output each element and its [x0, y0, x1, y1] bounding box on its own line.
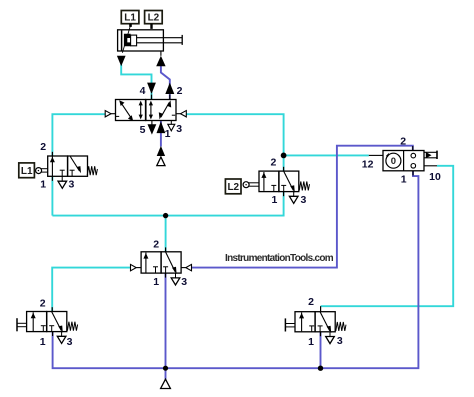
- L1 roller: [36, 168, 48, 174]
- svg-text:2: 2: [153, 239, 159, 251]
- L2 valve blocked port 1 T: [281, 185, 286, 191]
- middle valve diagonal path 2-3: [166, 252, 177, 274]
- svg-text:L2: L2: [148, 13, 160, 24]
- L2 valve return spring: [299, 181, 309, 190]
- flow arrow out of 5/2 port 5 (down): [148, 121, 157, 135]
- wire blue: middle valve right pilot to counter port 2: [191, 146, 412, 268]
- port stub middle valve port 1: [165, 273, 167, 277]
- svg-text:12: 12: [362, 159, 374, 171]
- middle valve left box path arrow up: [143, 253, 148, 273]
- leader line from flag L1 to cylinder piston: [122, 25, 130, 53]
- L2 valve left box path with arrow up: [261, 172, 266, 191]
- 5/2 valve left box crossed path: [119, 100, 133, 121]
- wire cyan: junction to counter port 12: [284, 154, 369, 156]
- middle valve port label 2: [153, 239, 159, 251]
- counter manual reset button: [424, 151, 437, 159]
- cylinder piston rod: [137, 35, 183, 45]
- 5/2 valve left box blocked port T: [116, 115, 119, 117]
- flow arrow supply under 5/2 valve (up): [157, 146, 165, 156]
- L2 port label 1: [271, 194, 277, 206]
- L1 valve exhaust triangle port 3: [58, 176, 67, 188]
- port stub middle valve port 2: [165, 247, 167, 251]
- L1 port label 3: [68, 178, 74, 190]
- svg-text:L1: L1: [124, 13, 136, 24]
- bottom-right valve port label 1: [308, 336, 314, 348]
- port stub L2 valve port 1: [283, 192, 285, 196]
- flow arrow out of 5/2 port 2 (up): [165, 83, 174, 94]
- svg-text:2: 2: [177, 85, 183, 97]
- counter port 2 stub: [412, 146, 414, 151]
- port stub bottom-right valve port 1: [320, 332, 322, 336]
- counter port label 10: [429, 171, 441, 183]
- middle valve port label 1: [153, 276, 159, 288]
- 5/2 valve left pilot: [105, 111, 115, 117]
- L1 port label 2: [40, 141, 46, 153]
- bottom-left valve return spring: [67, 322, 77, 331]
- L1 valve flow path 1-2 (open, arrow up): [50, 156, 55, 176]
- wire blue: stub from bus junction down to supply triangle: [165, 368, 167, 380]
- svg-text:L1: L1: [21, 166, 33, 177]
- wire cyan: L1 valve port 1 down to bus: [51, 176, 53, 215]
- bottom-right valve port label 3: [337, 335, 343, 347]
- bottom-left valve diagonal path 2-3: [52, 312, 63, 333]
- 5/2 valve right box diagonal path 1-2: [159, 100, 171, 119]
- middle valve exhaust triangle port 3: [171, 273, 180, 285]
- wire blue: 5/2 valve port 1 down to supply: [160, 121, 162, 147]
- middle valve left box blocked T: [153, 267, 158, 273]
- flow arrow into 5/2 port 1 (up): [157, 121, 166, 133]
- L1 flag box: [19, 163, 35, 178]
- bottom-left valve left box path arrow up: [31, 312, 36, 331]
- L1 valve body: [48, 156, 88, 176]
- wire cyan: counter port 10 to bottom-right valve port 2: [321, 166, 454, 306]
- port label 3 (5/2 valve): [176, 123, 182, 135]
- port stub bottom-left valve port 1: [52, 332, 54, 336]
- L2 valve diagonal path 2-3: [284, 171, 295, 192]
- svg-text:InstrumentationTools.com: InstrumentationTools.com: [225, 253, 334, 264]
- port stub L2 valve port 2: [283, 167, 285, 171]
- svg-text:1: 1: [153, 276, 159, 288]
- svg-text:3: 3: [337, 335, 343, 347]
- bottom-left valve manual plunger: [17, 318, 27, 331]
- port label 5: [140, 124, 146, 136]
- wire blue: cylinder right port to 5/2 valve port 2: [161, 65, 170, 100]
- bottom-right valve left box path arrow up: [299, 313, 304, 332]
- svg-text:2: 2: [40, 141, 46, 153]
- counter port 12 stub: [369, 154, 383, 156]
- port stub L1 valve port 2: [51, 152, 53, 156]
- port label 4: [140, 85, 146, 97]
- label flag L1: [121, 11, 139, 27]
- wire cyan: cylinder left port to 5/2 valve port 4: [121, 65, 151, 100]
- bottom-right valve blocked port 1 T: [318, 326, 323, 332]
- svg-text:10: 10: [429, 171, 441, 183]
- L2 valve left box blocked T: [271, 185, 276, 191]
- wire cyan: horizontal bus y=215.6 to L2 valve port 1: [52, 192, 283, 216]
- wire blue: middle valve port 1 down to supply bus: [165, 273, 167, 368]
- L2 flag box: [225, 179, 241, 194]
- pneumatic counter body: [383, 151, 424, 171]
- flow arrow at cylinder left port (down): [117, 56, 126, 66]
- cylinder right port stub: [160, 51, 162, 56]
- cylinder piston: [122, 30, 137, 50]
- port stub L1 valve port 1: [51, 176, 53, 181]
- L2 valve exhaust triangle port 3: [289, 192, 298, 204]
- L1 valve return spring: [87, 166, 97, 175]
- svg-text:3: 3: [176, 123, 182, 135]
- L1 valve right box diagonal path: [70, 157, 81, 174]
- bottom-left valve port label 2: [40, 297, 46, 309]
- svg-text:5: 5: [140, 124, 146, 136]
- svg-text:2: 2: [308, 296, 314, 308]
- flow arrow at cylinder right port (up): [156, 56, 165, 66]
- port label 2 (5/2 valve): [177, 85, 183, 97]
- flow arrow into 5/2 port 4 (down): [147, 83, 156, 94]
- bottom-right valve return spring: [336, 322, 346, 331]
- port stub 5/2 valve port 4: [151, 95, 153, 100]
- 5/2-way double pilot valve body: [116, 100, 177, 121]
- svg-text:1: 1: [40, 336, 46, 348]
- junction node on supply bus below bottom-right valve: [318, 366, 323, 371]
- 5/2 valve right pilot: [176, 111, 186, 117]
- svg-text:3: 3: [300, 194, 306, 206]
- svg-text:1: 1: [271, 194, 277, 206]
- watermark text: [225, 253, 334, 264]
- wire cyan: branch from bus junction down to middle valve port 2: [165, 216, 167, 252]
- junction node at L2 port 2 / counter 12: [281, 153, 287, 159]
- bottom-left valve (3/2 NC manual) body: [27, 312, 67, 332]
- counter port label 12: [362, 159, 374, 171]
- port stub bottom-left valve port 2: [51, 307, 53, 311]
- bottom-left valve blocked port 1 T: [49, 326, 54, 332]
- port stub 5/2 valve port 2: [169, 95, 171, 100]
- svg-text:1: 1: [401, 173, 407, 185]
- counter port 1 stub: [412, 171, 414, 176]
- L2 valve body: [259, 171, 299, 192]
- L2 roller: [243, 182, 259, 188]
- compressed air supply (bottom): [161, 379, 171, 388]
- wire cyan: bottom-left valve port 2 up to middle valve left pilot: [52, 268, 130, 312]
- counter pilot circles: [411, 153, 416, 168]
- svg-text:3: 3: [68, 178, 74, 190]
- middle valve blocked port 1 T: [163, 267, 168, 273]
- 5/2 port 3 exhaust triangle: [168, 121, 175, 131]
- cylinder (double acting) body: [118, 30, 164, 51]
- bottom-left valve port label 1: [40, 336, 46, 348]
- bottom-right valve left box blocked T: [309, 326, 314, 332]
- counter display circle with 0: [386, 153, 401, 169]
- L2 port label 3: [300, 194, 306, 206]
- svg-text:L2: L2: [227, 182, 239, 193]
- port label 1 (5/2 valve): [165, 128, 171, 140]
- svg-text:2: 2: [270, 156, 276, 168]
- bottom-left valve port label 3: [67, 336, 73, 348]
- svg-text:1: 1: [308, 336, 314, 348]
- counter port label 1: [401, 173, 407, 185]
- middle valve left pilot: [131, 264, 142, 270]
- bottom-right valve (3/2 NC manual) body: [295, 312, 335, 332]
- svg-text:1: 1: [165, 128, 171, 140]
- 5/2 valve left box vertical path with arrows: [139, 101, 143, 120]
- wire cyan: 5/2 left pilot to L1 valve port 2: [52, 114, 105, 156]
- L1 valve right box blocked T: [70, 170, 75, 176]
- wire blue: bottom-right valve port 1 down to bus: [320, 332, 322, 368]
- svg-text:3: 3: [181, 276, 187, 288]
- wire cyan: 5/2 right pilot to junction at L2 port 2: [186, 114, 283, 171]
- counter port 10 stub: [424, 165, 437, 167]
- middle valve right pilot: [181, 264, 191, 270]
- bottom-right valve exhaust triangle port 3: [326, 332, 335, 344]
- middle valve (3/2 NC, double pneumatic pilot) body: [141, 252, 181, 273]
- junction node on supply bus at source: [163, 366, 168, 371]
- counter port label 2: [400, 136, 406, 148]
- L2 port label 2: [270, 156, 276, 168]
- svg-text:4: 4: [140, 85, 146, 97]
- svg-text:0: 0: [391, 156, 396, 167]
- label flag L2: [145, 11, 163, 29]
- 5/2 valve right box blocked port T: [172, 114, 175, 116]
- wire blue: supply bus from bottom-left valve port 1 to counter port 1: [53, 171, 419, 368]
- svg-text:2: 2: [400, 136, 406, 148]
- bottom-right valve port label 2: [308, 296, 314, 308]
- 5/2 valve right box vertical path with arrows: [149, 101, 153, 120]
- bottom-right valve diagonal path 2-3: [320, 312, 331, 333]
- svg-text:2: 2: [40, 297, 46, 309]
- junction node on cyan bus above middle valve: [163, 213, 168, 218]
- bottom-left valve left box blocked T: [41, 326, 46, 332]
- svg-text:1: 1: [40, 178, 46, 190]
- compressed air supply under 5/2 valve: [157, 157, 165, 166]
- middle valve port label 3: [181, 276, 187, 288]
- L1 port label 1: [40, 178, 46, 190]
- bottom-right valve manual plunger: [285, 318, 295, 331]
- bottom-left valve exhaust triangle port 3: [57, 332, 66, 344]
- port stub bottom-right valve port 2: [320, 306, 322, 312]
- L1 valve blocked port 3 T: [60, 170, 65, 176]
- svg-text:3: 3: [67, 336, 73, 348]
